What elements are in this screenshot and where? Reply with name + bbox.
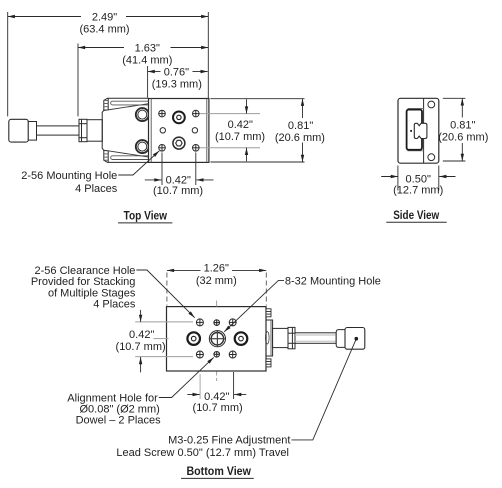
top view: lead screw shaft: [37, 126, 80, 135]
top view: moving platform outline: [102, 98, 148, 162]
top view: 2-56 mounting hole top-left: [159, 110, 166, 117]
leader to knob with dot: [291, 339, 356, 440]
top view: dovetail slot bottom: [111, 156, 149, 160]
leader to bottom-left mounting hole: [118, 151, 159, 175]
svg-text:(12.7 mm): (12.7 mm): [393, 184, 443, 196]
svg-text:8-32 Mounting Hole: 8-32 Mounting Hole: [285, 275, 381, 287]
svg-text:(10.7 mm): (10.7 mm): [153, 185, 203, 197]
bottom view: 2-56 clearance hole top-right: [229, 319, 236, 326]
side view: adjuster tab: [414, 123, 427, 138]
bottom view: centerline stub left: [154, 338, 169, 340]
leader to bottom-center alignment hole: [159, 357, 214, 397]
svg-text:0.81": 0.81": [288, 120, 313, 132]
dimension 0.76" (19.3 mm) base plate width: [148, 66, 208, 98]
bottom view: lead screw end: [266, 332, 270, 344]
svg-text:Side View: Side View: [393, 210, 439, 222]
side view: platform edge lines: [408, 109, 424, 151]
svg-text:2-56 Mounting Hole: 2-56 Mounting Hole: [21, 170, 117, 182]
label M3-0.25 Fine Adjustment: [116, 435, 290, 459]
label 2-56 Clearance Hole block: [31, 265, 136, 310]
svg-text:Provided for Stacking: Provided for Stacking: [31, 276, 136, 288]
top view: dovetail serrations top: [104, 100, 108, 110]
bottom view: knob collar: [336, 330, 345, 348]
svg-text:Top View: Top View: [124, 210, 168, 222]
top view: clearance hole mid-right: [192, 128, 197, 133]
svg-text:(10.7 mm): (10.7 mm): [116, 341, 166, 353]
svg-text:0.76": 0.76": [164, 66, 189, 78]
dimension 0.42" (10.7 mm) top view right: [246, 99, 248, 161]
svg-text:1.26": 1.26": [204, 263, 229, 275]
svg-text:Lead Screw 0.50" (12.7 mm) Tra: Lead Screw 0.50" (12.7 mm) Travel: [116, 447, 289, 459]
svg-text:4 Places: 4 Places: [93, 298, 136, 310]
top view: set screw socket: [173, 137, 185, 149]
svg-text:(20.6 mm): (20.6 mm): [438, 131, 488, 143]
top view: dovetail slot top: [111, 101, 149, 105]
svg-text:1.63": 1.63": [135, 42, 160, 54]
bottom view: adjustment knob: [345, 328, 365, 350]
leader to top-left clearance hole: [136, 270, 194, 318]
svg-text:0.42": 0.42": [228, 119, 253, 131]
dimension 0.42" (10.7 mm) bottom view left: [140, 310, 142, 373]
dimension 0.81" (20.6 mm) side view: [443, 98, 466, 161]
top view: clearance hole mid-left: [160, 128, 165, 133]
dimension 1.26" (32 mm) bottom view: [167, 270, 266, 305]
top view: 2-56 mounting hole bottom-right: [193, 145, 200, 152]
svg-text:(41.4 mm): (41.4 mm): [122, 54, 172, 66]
side view: alignment dot: [410, 130, 412, 132]
top view: hole extension lines (gray): [199, 114, 260, 148]
bottom view: bushing left: [187, 332, 200, 345]
bottom view: bushing right: [235, 332, 248, 345]
top view: lock nut: [79, 119, 87, 141]
svg-text:0.81": 0.81": [450, 120, 475, 132]
top view: platform screw top: [136, 108, 149, 121]
top view: 2-56 mounting hole top-right: [193, 110, 200, 117]
bottom view: alignment hole top-center: [214, 320, 220, 326]
svg-text:0.42": 0.42": [204, 391, 229, 403]
dimension 1.63" (41.4 mm): [78, 44, 208, 117]
top view: adjustment screw bushing: [173, 112, 185, 124]
top view: knob collar: [28, 122, 36, 141]
top view: dovetail edge top: [104, 104, 149, 111]
bottom view: screw housing: [273, 328, 288, 347]
dimension 0.50" (12.7 mm) side view: [381, 166, 455, 191]
side view: plate divider: [423, 98, 425, 163]
side view: mounting hole bottom: [428, 154, 435, 161]
svg-text:Bottom View: Bottom View: [186, 466, 251, 478]
svg-text:Alignment Hole for: Alignment Hole for: [67, 392, 158, 404]
bottom view: body: [167, 307, 267, 371]
bottom view: clamp serrations top-right: [266, 309, 271, 317]
dimension 0.81" (20.6 mm) top view: [210, 99, 304, 162]
top view: 2-56 mounting hole bottom-left: [159, 145, 166, 152]
bottom view: hole extension lines left (gray): [135, 322, 193, 357]
bottom view: lead screw shaft: [295, 333, 336, 344]
bottom view: 8-32 mounting hole center: [209, 331, 225, 347]
label Alignment Hole block: [67, 392, 161, 426]
bottom view: clamp block: [266, 320, 273, 356]
bottom view: 2-56 clearance hole top-left: [196, 319, 203, 326]
dimension 2.49" (63.4 mm) top view overall width: [8, 12, 209, 116]
top view: dovetail serrations bottom: [104, 151, 108, 161]
side view: mounting hole top: [428, 101, 435, 108]
dimension 0.42" (10.7 mm) top view bottom: [145, 153, 214, 186]
leader to center mounting hole: [224, 280, 284, 331]
svg-text:(63.4 mm): (63.4 mm): [79, 23, 129, 35]
svg-text:2.49": 2.49": [92, 11, 117, 23]
bottom view: clamp serrations bottom-right: [266, 359, 271, 367]
svg-text:(10.7 mm): (10.7 mm): [193, 402, 243, 414]
svg-text:(20.6 mm): (20.6 mm): [275, 132, 325, 144]
top view: screw housing: [87, 120, 102, 142]
svg-text:(10.7 mm): (10.7 mm): [215, 131, 265, 143]
bottom view: centerline below body: [216, 372, 218, 382]
bottom view: centerline above body: [216, 301, 218, 307]
svg-text:Dowel – 2 Places: Dowel – 2 Places: [76, 415, 161, 427]
side view: body plate: [398, 98, 439, 163]
dimension 0.42" (10.7 mm) bottom view bottom: [187, 372, 246, 399]
top view: adjustment knob: [9, 119, 29, 142]
bottom view: lock nut: [288, 327, 295, 348]
svg-text:M3-0.25 Fine Adjustment: M3-0.25 Fine Adjustment: [168, 435, 290, 447]
top view: base plate: [149, 99, 209, 163]
bottom view: 2-56 clearance hole bottom-left: [196, 351, 203, 358]
svg-text:4 Places: 4 Places: [75, 183, 118, 195]
top view: platform screw bottom: [136, 140, 149, 153]
label 2-56 Mounting Hole 4 Places: [21, 170, 118, 195]
side view: moving platform cross-section: [407, 110, 422, 150]
bottom view: alignment hole bottom-center: [214, 352, 220, 358]
svg-text:0.42": 0.42": [129, 329, 154, 341]
svg-text:(19.3 mm): (19.3 mm): [152, 78, 202, 90]
bottom view: 2-56 clearance hole bottom-right: [229, 351, 236, 358]
top view: dovetail edge bottom: [104, 150, 149, 157]
svg-text:(32 mm): (32 mm): [196, 275, 237, 287]
